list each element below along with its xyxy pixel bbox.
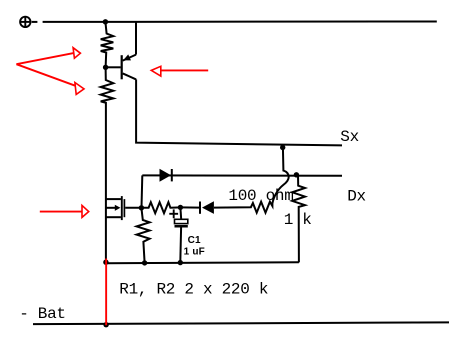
svg-text:- Bat: - Bat xyxy=(19,305,66,323)
svg-text:100 ohm: 100 ohm xyxy=(228,187,293,205)
svg-text:1 uF: 1 uF xyxy=(184,247,205,258)
svg-text:Dx: Dx xyxy=(347,187,366,205)
svg-text:Sx: Sx xyxy=(340,128,359,146)
svg-text:1 k: 1 k xyxy=(284,211,312,229)
svg-text:C1: C1 xyxy=(188,235,201,246)
svg-text:R1, R2 2 x 220 k: R1, R2 2 x 220 k xyxy=(119,281,268,299)
